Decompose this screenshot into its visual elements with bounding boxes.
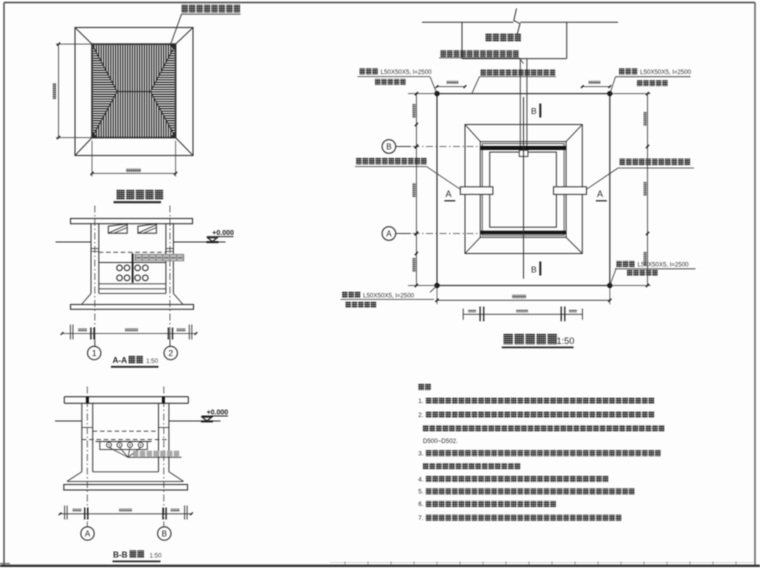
plan title (foundation plan 1:50)	[504, 334, 513, 345]
BB axis centerline A	[86, 387, 88, 527]
svg-text:L50X50X5, l=2500: L50X50X5, l=2500	[381, 69, 433, 76]
AA column 1	[90, 224, 92, 294]
roofplan label text	[182, 5, 188, 13]
BB footing slab	[64, 485, 188, 491]
AA duct bank top line	[99, 262, 166, 264]
AA dashed embed line	[99, 251, 166, 253]
svg-text:B: B	[162, 530, 167, 539]
plan AA cut box left	[460, 187, 493, 195]
svg-text:1:50: 1:50	[150, 552, 163, 559]
AA axis bubble 1	[94, 334, 96, 347]
svg-text:6.: 6.	[418, 501, 423, 508]
svg-text:A: A	[446, 189, 452, 199]
roofplan hip diagonals and ridge	[92, 44, 117, 92]
BB ground line	[55, 420, 82, 422]
roofplan corner eave diagonals	[75, 28, 92, 45]
plan ground label top-right	[619, 68, 625, 74]
svg-text:4.: 4.	[418, 476, 423, 483]
svg-text:L50X50X5, l=2500: L50X50X5, l=2500	[640, 69, 692, 76]
svg-text:B-B: B-B	[113, 550, 128, 559]
BB pipe tray	[96, 441, 152, 443]
plan cable well label	[486, 33, 492, 41]
plan ground label bottom-right	[616, 261, 622, 267]
plan label 8x GG100 pipes	[440, 50, 446, 57]
svg-text:7.: 7.	[418, 515, 423, 522]
AA haunches	[82, 293, 92, 304]
plan label 4x GG100 pipes right	[620, 159, 626, 166]
plan corner chamfer diagonals	[465, 125, 480, 142]
roofplan outer square	[75, 28, 193, 156]
roofplan title (foundation top view)	[117, 190, 125, 200]
svg-text:1:50: 1:50	[146, 358, 159, 365]
svg-text:L50X50X5, l=2500: L50X50X5, l=2500	[363, 293, 415, 300]
BB axis centerline B	[163, 387, 165, 527]
plan label 4x GG100 pipes left	[356, 158, 362, 165]
BB axis bubble A	[81, 527, 94, 540]
roofplan corner dark marks	[169, 44, 176, 51]
svg-text:B: B	[531, 264, 537, 274]
border frame left	[3, 3, 5, 567]
AA footing top line	[99, 292, 166, 294]
svg-text:D500~D502.: D500~D502.	[423, 438, 458, 445]
plan ground label top-left	[360, 68, 366, 74]
plan right dimension chain	[647, 94, 649, 286]
AA axis bubble 2	[169, 334, 171, 347]
plan ground label bottom-left	[342, 292, 348, 298]
AA conduit circles row2	[117, 275, 123, 281]
AA column 2	[165, 224, 167, 294]
border frame top	[4, 2, 755, 4]
AA footing slab	[71, 305, 194, 310]
AA dimension line	[62, 333, 196, 335]
plan top dimension right segment	[582, 86, 610, 88]
plan inner pit rect	[490, 152, 557, 227]
svg-text:5.: 5.	[418, 489, 423, 496]
plan axis bubble B left	[382, 140, 396, 154]
BB top slab	[64, 396, 188, 398]
plan cable well top line	[422, 21, 513, 23]
roofplan left dimension	[58, 44, 60, 138]
plan cable well rectangle	[461, 22, 463, 58]
AA vent louver right	[138, 224, 157, 234]
svg-text:B: B	[531, 106, 537, 116]
svg-text:2: 2	[168, 348, 173, 358]
svg-text:+0.000: +0.000	[207, 409, 229, 416]
AA vent louver left	[108, 224, 127, 234]
plan left dimension chain	[415, 94, 417, 286]
svg-text:1:50: 1:50	[557, 336, 575, 346]
svg-text:A: A	[386, 230, 392, 239]
plan pit outer double rect	[480, 142, 566, 238]
AA ground line	[56, 241, 92, 243]
svg-text:A: A	[597, 189, 603, 199]
BB anchor marks	[86, 397, 89, 403]
svg-text:B: B	[386, 143, 391, 152]
plan section line B-B vertical	[523, 97, 525, 279]
roofplan label leader (prefab box substation)	[170, 14, 181, 45]
plan cable well break mark	[514, 9, 520, 35]
AA conduit circles row1	[117, 265, 123, 271]
notes line 3	[423, 425, 429, 431]
AA axis centerline 2	[169, 206, 171, 347]
BB pipe label	[133, 451, 138, 457]
AA label leader stem	[132, 253, 134, 282]
plan axis A dash-dot	[399, 233, 480, 235]
plan outer square	[437, 94, 610, 286]
roofplan bottom dimension	[91, 141, 93, 177]
svg-text:2.: 2.	[418, 412, 423, 419]
plan duct twin lines	[519, 59, 521, 151]
svg-text:1: 1	[92, 348, 97, 358]
roofplan vertical hatch (front/back roof faces)	[94, 44, 173, 138]
svg-text:1.: 1.	[418, 398, 423, 405]
svg-text:+0.000: +0.000	[212, 230, 234, 237]
BB dimension line	[60, 513, 192, 515]
border frame bottom (title bar edge)	[0, 565, 760, 567]
roofplan horizontal hatch (left/right roof faces)	[92, 46, 176, 135]
plan axis B dash-dot	[399, 146, 480, 148]
plan beam thick bar bottom	[480, 231, 566, 235]
title bar tick marks	[344, 562, 346, 566]
notes heading	[418, 384, 424, 390]
plan label earth strip (flat steel)	[481, 69, 486, 75]
AA column joint ticks	[91, 248, 99, 250]
plan beam thick bar top	[480, 146, 566, 150]
BB column A	[81, 403, 83, 472]
border frame right	[754, 3, 756, 567]
svg-text:3.: 3.	[418, 451, 423, 458]
svg-text:A-A: A-A	[113, 356, 128, 365]
AA duct bank bottom lines	[99, 283, 166, 285]
svg-text:A: A	[85, 530, 91, 539]
AA cable-duct label highlight	[134, 254, 184, 261]
roofplan inner square	[92, 44, 176, 138]
AA top slab	[71, 219, 193, 224]
BB axis bubble B	[158, 527, 171, 540]
notes line 6	[423, 463, 429, 469]
plan bottom detail dimension row	[463, 313, 582, 315]
BB dashed embed lines	[93, 430, 159, 432]
AA axis centerline 1	[94, 206, 96, 347]
BB pipe circles	[107, 442, 112, 447]
plan earth electrode corner dots	[434, 91, 439, 96]
BB column joint ticks	[82, 427, 93, 429]
plan AA cut box right	[554, 187, 587, 195]
plan duct terminal box	[519, 150, 528, 156]
BB footing step	[93, 471, 159, 473]
BB column B	[158, 403, 160, 472]
plan second square	[465, 125, 582, 254]
plan top dimension left segment	[437, 86, 465, 88]
plan axis bubble A left	[382, 227, 396, 241]
plan bottom overall dimension	[436, 288, 438, 305]
BB pipe leader lines	[109, 447, 128, 457]
